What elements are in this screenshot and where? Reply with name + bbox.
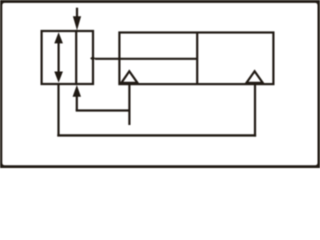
node A (connection diamond on V1 right edge) — [90, 56, 95, 60]
valve V1 body — [42, 31, 93, 84]
left port line — [128, 84, 130, 125]
valve V1 internal divider — [75, 30, 77, 85]
piston rod wire — [95, 58, 197, 60]
bottom arrow (up, into V1) — [73, 85, 81, 111]
wire riser below V1 — [57, 84, 59, 137]
top arrow (down, into V1) — [73, 8, 81, 31]
right port line — [254, 84, 256, 137]
long bottom wire — [57, 134, 256, 136]
port triangle right — [246, 71, 262, 83]
cylinder C1 piston — [196, 33, 198, 85]
wire from bottom arrow to left port — [76, 109, 131, 111]
cylinder C1 body — [119, 33, 273, 85]
double arrow inside V1 — [54, 32, 63, 82]
port triangle left — [121, 71, 137, 83]
